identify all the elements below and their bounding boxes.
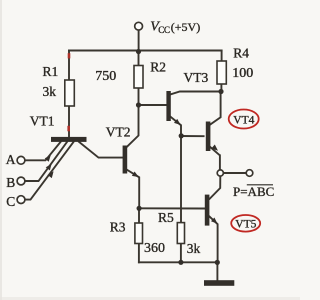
wire input A [25,142,61,160]
wire top VCC rail [69,50,222,52]
wire R2 bottom [138,88,140,105]
wire R3 bottom [138,244,140,263]
svg-text:VT4: VT4 [233,115,254,127]
wire VT5 base line [139,207,204,209]
svg-text:100: 100 [232,66,253,81]
svg-text:VT5: VT5 [235,219,256,231]
svg-text:R2: R2 [150,60,166,75]
junction dot R4/VT3 collector node [218,89,223,94]
resistor R3 [135,223,143,244]
junction dot VT2 emitter node [137,206,142,211]
junction dot VCC node [136,49,141,54]
transistor VT2 [123,146,128,174]
wire R1 top [68,51,70,81]
red ellipse VT5 [231,215,260,232]
wire VT3 emitter to node Y [171,117,181,136]
ground [204,280,234,286]
svg-text:750: 750 [95,69,116,84]
wire R1 bottom to VT1 base [68,106,70,138]
arrow VT5 emitter [211,218,218,224]
wire ground lead [216,262,218,280]
label output P=ABC [233,184,274,199]
wire VT2 collector [127,105,138,147]
terminal output P [246,170,253,177]
wire R2 top [138,52,140,66]
wire R5 bottom [180,244,182,263]
svg-text:R3: R3 [110,220,126,235]
arrow input B emitter [46,164,52,171]
wire R4 bottom [220,84,222,92]
wire VT5 emitter [209,217,217,263]
terminal VCC [135,22,143,30]
red mark top-left wire [68,53,71,58]
svg-text:(+5V): (+5V) [171,20,200,34]
wire node Y down to R5 [180,136,182,223]
arrow VT3 emitter [174,119,181,125]
svg-text:3k: 3k [43,84,57,99]
terminal input C [17,196,25,204]
wire bottom rail [139,261,217,263]
transistor VT3 [166,91,170,121]
junction dot node Y [179,133,184,138]
resistor R4 [217,61,226,84]
wire node Y to VT4 base [181,135,204,137]
arrow input C emitter [48,171,54,178]
wire output to terminal [223,172,246,174]
arrow VT4 emitter [211,145,218,151]
svg-text:R4: R4 [233,46,249,61]
resistor R1 [65,80,75,106]
junction dot R5 bottom [178,260,183,265]
svg-text:360: 360 [144,241,165,256]
arrow VT2 emitter [132,172,139,178]
wire input C [25,142,74,200]
svg-text:C: C [6,194,15,209]
svg-text:VT2: VT2 [106,125,131,140]
arrow input A emitter [45,155,51,162]
svg-text:VT3: VT3 [184,70,209,85]
resistor R5 [177,223,184,244]
svg-text:CC: CC [158,25,170,35]
svg-text:B: B [6,175,15,190]
red mark above VT1 [67,126,70,132]
terminal input B [17,177,25,185]
label VCC(+5V) [150,20,200,36]
wire node B2 to VT3 base [139,104,167,106]
wire VT4 emitter to output [210,147,220,170]
wire R3 top [138,208,140,223]
svg-text:R1: R1 [43,64,59,79]
transistor VT1 multi-emitter bar [51,137,87,142]
terminal output node [217,170,223,176]
svg-text:P=ABC: P=ABC [233,184,274,199]
red ellipse VT4 [229,110,259,129]
wire VCC stub [138,30,140,51]
wire VT1 collector to VT2 base [79,142,123,158]
wire VT2 emitter [127,170,139,209]
resistor R2 [134,66,143,89]
wire R4 drop from rail [221,51,223,62]
wire input B [25,142,67,181]
svg-text:3k: 3k [187,241,201,256]
wire VT4 collector [210,92,220,125]
svg-text:R5: R5 [158,210,174,225]
wire VT3 collector [171,92,221,95]
junction dot R2/VT3 base node [136,102,141,107]
transistor VT5 [205,195,210,226]
wire VT5 collector [210,176,221,199]
terminal input A [17,156,25,164]
svg-text:VT1: VT1 [30,113,55,128]
svg-text:A: A [6,152,16,167]
junction dot ground node [215,260,220,265]
transistor VT4 [206,122,211,152]
